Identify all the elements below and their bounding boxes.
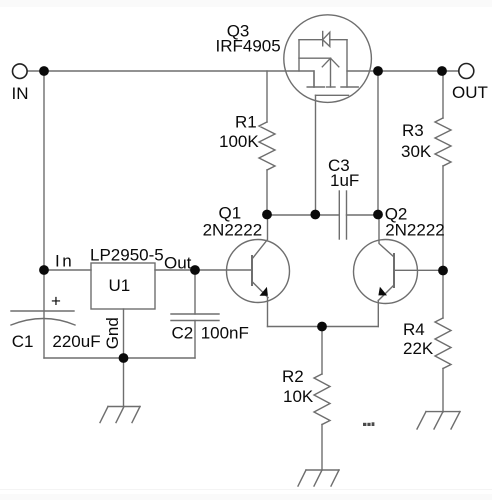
Q3 body-diode left vertical: [298, 40, 300, 71]
wire: Q3 gate down to C3 node: [315, 95, 317, 215]
wire: IN node vertical down to C1/U1: [43, 71, 45, 270]
wire: U1 Gnd pin down: [123, 309, 125, 406]
wire: Q2 emitter down to rail: [377, 301, 379, 327]
transistor Q1 circle: [227, 240, 290, 303]
svg-text:C2: C2: [172, 323, 194, 342]
wire: top rail from IN to Q3 source: [27, 71, 314, 87]
junction dot at IN node: [39, 66, 49, 76]
transistor Q3 body circle: [284, 15, 372, 103]
Q3 body-diode cathode bar: [322, 32, 324, 46]
transistor Q2 circle: [354, 240, 418, 304]
wire: Q1 collector node to C3 left plate: [267, 214, 339, 216]
svg-text:22K: 22K: [403, 339, 434, 358]
Q1 collector lead: [252, 215, 268, 259]
resistor R2: [314, 374, 330, 425]
svg-text:IN: IN: [12, 84, 29, 103]
wire: C3 right plate to Q2 collector node: [347, 214, 379, 216]
capacitor C1 top plate: [11, 310, 74, 312]
svg-text:220uF: 220uF: [52, 332, 100, 351]
wire: R3 bottom to Q2 base node: [442, 166, 444, 271]
capacitor C3 plates: [338, 191, 340, 239]
svg-text:LP2950-5: LP2950-5: [90, 245, 164, 264]
regulator U1 box: [91, 263, 155, 309]
Q3 body arrow: [322, 58, 339, 67]
resistor R3: [435, 118, 451, 166]
Q2 collector lead: [379, 215, 394, 257]
ground (below R2): [298, 470, 339, 486]
wire: R3 branch vertical (node OUT to R3 top): [442, 71, 444, 118]
Q3 body connection line: [299, 57, 331, 59]
wire: Q1 emitter down to rail: [267, 298, 269, 327]
junction dot at R3/R4/Q2 base node: [438, 266, 448, 276]
Q3 body-diode top left lead: [299, 39, 323, 41]
capacitor C1 curved plate: [11, 319, 75, 326]
svg-text:2N2222: 2N2222: [385, 220, 445, 239]
svg-text:C1: C1: [12, 332, 34, 351]
svg-text:R1: R1: [235, 113, 257, 132]
svg-text:U1: U1: [109, 276, 131, 295]
Q3 body stub: [330, 58, 332, 87]
wire: rail node to R2 top: [321, 327, 323, 375]
svg-text:In: In: [55, 251, 74, 270]
svg-text:10K: 10K: [283, 387, 314, 406]
ground (below U1): [100, 407, 140, 423]
Q3 body-diode right vertical to drain: [346, 40, 348, 71]
svg-text:R2: R2: [282, 367, 304, 386]
resistor R1: [259, 122, 275, 170]
capacitor C2 plates: [171, 313, 219, 315]
junction dot at ground rail/U1 Gnd node: [119, 353, 129, 363]
Q1 emitter lead: [252, 282, 268, 298]
Q2 base bar: [393, 254, 395, 287]
Q3 channel bar right: [341, 86, 358, 88]
terminal IN: [12, 64, 27, 79]
junction dot at U1-Out/C2 node: [190, 265, 200, 275]
svg-text:Gnd: Gnd: [103, 317, 122, 349]
junction dot at C3/Q2 collector node: [373, 210, 383, 220]
wire: U1 Out node down to C2: [194, 270, 196, 314]
watermark: [363, 422, 374, 426]
Q1 emitter arrow: [260, 287, 268, 296]
Q3 body-diode triangle: [323, 32, 330, 46]
Q3 source contact stub: [313, 71, 315, 87]
terminal OUT: [459, 64, 474, 79]
svg-text:+: +: [51, 292, 61, 311]
ground (below R4): [417, 412, 460, 429]
wire: drain branch down to node at C3 right: [377, 71, 379, 215]
wire: emitter rail: [268, 326, 379, 328]
wire: Q2 base to divider node: [394, 269, 443, 271]
junction dot at Q3 gate node: [310, 210, 320, 220]
wire: R1 bottom to Q1 collector node: [266, 170, 268, 215]
wire: Q2 base node to R4 top: [442, 271, 444, 319]
Q3 channel bar left: [307, 86, 324, 88]
svg-text:30K: 30K: [401, 142, 432, 161]
svg-text:R3: R3: [402, 121, 424, 140]
svg-text:100K: 100K: [219, 132, 259, 151]
wire: ground rail: [44, 357, 195, 359]
svg-text:Out: Out: [164, 254, 192, 273]
wire: U1 Out pin to Q1 base: [155, 269, 252, 271]
svg-text:2N2222: 2N2222: [203, 220, 263, 239]
wire: R4 bottom to ground: [442, 369, 444, 413]
wire: R2 bottom to ground: [321, 425, 323, 471]
svg-text:IRF4905: IRF4905: [216, 36, 281, 55]
wire: top rail from Q3 drain to OUT: [347, 71, 459, 87]
resistor R4: [435, 318, 451, 369]
wire: R1 branch from top rail: [266, 71, 268, 122]
junction dot at emitter rail/R2 node: [317, 322, 327, 332]
junction dot at Q3 drain node: [373, 66, 383, 76]
Q3 gate bar: [316, 94, 349, 96]
wire: C1 through to ground rail: [43, 270, 45, 358]
junction dot at C1/U1-In node: [39, 265, 49, 275]
svg-text:OUT: OUT: [452, 83, 488, 102]
Q2 emitter lead: [378, 285, 394, 301]
junction dot at R1/Q1 collector node: [262, 210, 272, 220]
wire: node to U1 In pin: [44, 269, 91, 271]
Q3 body-diode top right lead: [330, 39, 347, 41]
svg-text:1uF: 1uF: [330, 171, 359, 190]
svg-text:R4: R4: [403, 320, 425, 339]
Q3 channel bar middle: [327, 86, 335, 88]
wire: C2 bottom to ground rail: [194, 321, 196, 359]
svg-text:100nF: 100nF: [201, 323, 249, 342]
Q1 base bar: [251, 256, 253, 285]
Q2 emitter arrow: [378, 287, 387, 296]
junction dot at OUT/R3 node: [437, 66, 447, 76]
